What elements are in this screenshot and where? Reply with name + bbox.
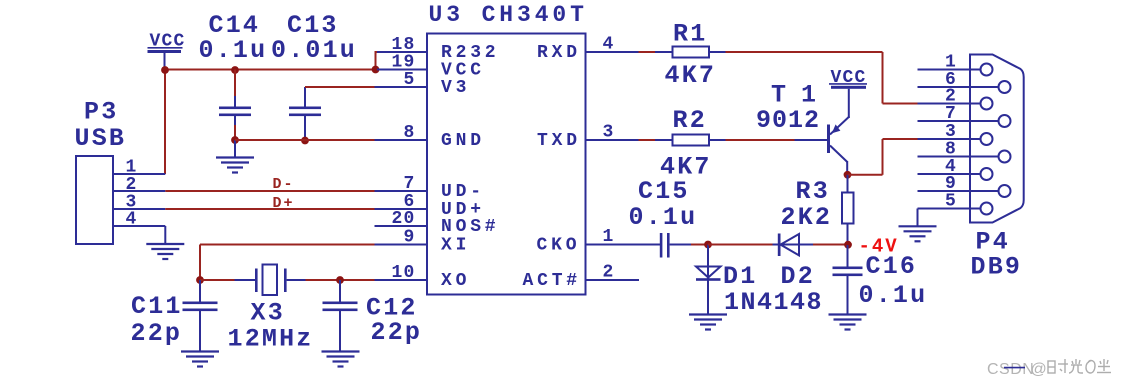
svg-text:V3: V3 xyxy=(441,78,470,98)
svg-text:P3: P3 xyxy=(84,98,118,127)
ground below C16 xyxy=(829,315,867,330)
svg-text:C16: C16 xyxy=(866,252,918,281)
pin 1 of P4 xyxy=(918,53,993,76)
node C14 top junction xyxy=(231,66,239,74)
power symbol VCC (left) xyxy=(148,32,186,70)
svg-text:20: 20 xyxy=(391,209,415,229)
svg-text:7: 7 xyxy=(403,174,415,194)
wire D2 to -4V node xyxy=(813,244,848,246)
node C15/D1/D2 junction xyxy=(704,241,712,249)
svg-text:7: 7 xyxy=(945,104,957,124)
svg-text:5: 5 xyxy=(403,70,415,90)
pin 1 (CKO) of U3 xyxy=(537,227,661,255)
pin 3 of P4 xyxy=(918,122,993,145)
node -4V junction xyxy=(844,241,852,249)
svg-text:0.01u: 0.01u xyxy=(271,36,357,65)
resistor R3 xyxy=(842,175,854,245)
svg-text:NOS#: NOS# xyxy=(441,217,499,237)
svg-text:4: 4 xyxy=(125,210,137,230)
pin 8 of P4 xyxy=(918,140,1011,163)
diode D2 xyxy=(773,234,814,257)
svg-text:C11: C11 xyxy=(131,292,183,321)
pin 9 of P4 xyxy=(918,174,1011,197)
diode D1 1N4148 xyxy=(696,245,721,315)
wire V3 net (pin 5 to C13) xyxy=(305,86,375,88)
wire R1 to DB9 pin 2 xyxy=(726,52,919,104)
svg-text:XI: XI xyxy=(441,235,470,255)
wire C14 junction to ground xyxy=(234,140,236,158)
capacitor C13 xyxy=(289,87,321,140)
svg-text:C15: C15 xyxy=(638,177,690,206)
pin 5 (V3) of U3 xyxy=(375,70,471,98)
node pin18/19 junction xyxy=(372,66,380,74)
pin 6 of P4 xyxy=(918,70,1011,93)
svg-text:R1: R1 xyxy=(673,20,707,49)
wire D- net xyxy=(165,190,375,192)
wire VCC to C14 xyxy=(234,70,236,98)
svg-text:GND: GND xyxy=(441,131,485,151)
wire XO net left stub xyxy=(200,279,235,281)
svg-text:8: 8 xyxy=(403,123,415,143)
watermark @时光の尘 glyph strokes xyxy=(1048,359,1111,373)
svg-text:XO: XO xyxy=(441,271,470,291)
svg-text:TXD: TXD xyxy=(537,131,581,151)
wire XO net crystal-right to pin 10 xyxy=(306,279,376,281)
pin 2 (ACT#) of U3 xyxy=(523,262,640,290)
svg-text:1N4148: 1N4148 xyxy=(724,288,823,317)
svg-text:RXD: RXD xyxy=(537,43,581,63)
wire XI net xyxy=(200,245,375,281)
wire VCC rail xyxy=(164,69,376,71)
ground below P3 pin 4 xyxy=(146,244,184,259)
svg-text:4K7: 4K7 xyxy=(665,61,717,90)
svg-text:D2: D2 xyxy=(781,262,815,291)
svg-text:3: 3 xyxy=(603,122,615,142)
svg-text:U3 CH340T: U3 CH340T xyxy=(429,2,588,28)
ground below C14 xyxy=(216,158,254,173)
pin 2 of P3 xyxy=(113,175,165,195)
svg-text:D1: D1 xyxy=(723,262,757,291)
pin 6 (UD+) of U3 xyxy=(375,192,485,220)
svg-text:0.1u: 0.1u xyxy=(859,281,928,310)
pin 1 of P3 xyxy=(113,158,165,178)
svg-text:R3: R3 xyxy=(796,177,830,206)
pin 4 (RXD) of U3 xyxy=(537,34,639,62)
svg-text:2: 2 xyxy=(603,262,615,282)
pin 20 (NOS#) of U3 xyxy=(375,209,500,237)
wire DB9 pin5 to ground xyxy=(917,209,919,226)
capacitor C11 xyxy=(183,280,218,352)
node VCC-left junction xyxy=(161,66,169,74)
svg-text:0.1u: 0.1u xyxy=(199,36,268,65)
wire R2 to T1 base xyxy=(726,139,796,141)
wire jog to pin 18 xyxy=(376,51,382,70)
pin 3 of P3 xyxy=(113,193,165,213)
wire C15 to D1/D2 node xyxy=(691,244,708,246)
pin 7 of P4 xyxy=(918,104,1011,127)
power symbol VCC (at T1) xyxy=(829,68,867,117)
resistor R2 xyxy=(655,135,727,146)
svg-text:@: @ xyxy=(1031,361,1048,378)
svg-text:22p: 22p xyxy=(131,319,183,348)
node C14 bottom junction xyxy=(231,136,239,144)
ground below C11 xyxy=(181,352,219,367)
ground below DB9 xyxy=(899,226,937,241)
wire GND net (C14/C13 to pin 8) xyxy=(235,139,375,141)
wire T1 collector to DB9 pin 3 xyxy=(848,139,919,175)
capacitor C14 xyxy=(219,96,251,126)
pin 10 (XO) of U3 xyxy=(375,263,471,291)
svg-text:2K2: 2K2 xyxy=(781,203,833,232)
svg-text:D-: D- xyxy=(273,176,295,193)
pin 9 (XI) of U3 xyxy=(375,227,471,255)
pin 18 (R232) of U3 xyxy=(377,35,499,63)
connector P4 DB9 body xyxy=(970,55,1024,223)
svg-text:UD-: UD- xyxy=(441,182,485,202)
svg-text:22p: 22p xyxy=(371,318,423,347)
capacitor C12 xyxy=(323,280,358,352)
svg-text:R2: R2 xyxy=(673,106,707,135)
pin 2 of P4 xyxy=(918,87,993,110)
pin 19 (VCC) of U3 xyxy=(377,52,485,80)
svg-text:CKO: CKO xyxy=(537,235,581,255)
resistor R1 xyxy=(655,47,727,58)
capacitor C16 xyxy=(833,245,863,315)
ground below C12 xyxy=(322,352,360,367)
svg-text:ACT#: ACT# xyxy=(523,271,581,291)
pin 4 of P4 xyxy=(918,157,993,180)
svg-text:0.1u: 0.1u xyxy=(629,203,698,232)
node C13 bottom junction xyxy=(301,137,309,145)
svg-text:10: 10 xyxy=(391,263,415,283)
wire pin3 to R2 xyxy=(639,139,657,141)
pin 5 of P4 xyxy=(918,192,993,215)
op-amp U3 CH340T body xyxy=(427,34,586,295)
pin 3 (TXD) of U3 xyxy=(537,122,639,150)
pin 4 of P3 xyxy=(113,210,165,244)
node T1 collector junction xyxy=(844,171,852,179)
pin 7 (UD-) of U3 xyxy=(375,174,485,202)
pin 8 (GND) of U3 xyxy=(375,123,485,151)
svg-text:4: 4 xyxy=(603,34,615,54)
svg-text:9: 9 xyxy=(403,227,415,247)
wire VCC drop to USB pin 1 xyxy=(164,70,166,175)
wire pin4 to R1 xyxy=(639,51,657,53)
wire D+ net xyxy=(165,208,375,210)
svg-text:1: 1 xyxy=(603,227,615,247)
svg-text:VCC: VCC xyxy=(831,68,867,88)
capacitor C15 xyxy=(660,233,692,258)
svg-text:5: 5 xyxy=(945,192,957,212)
node crystal left junction xyxy=(196,276,204,284)
connector P3 USB body xyxy=(76,156,113,244)
svg-text:12MHz: 12MHz xyxy=(228,325,314,354)
transistor T1 9012 xyxy=(795,117,850,176)
crystal X3 xyxy=(235,265,306,296)
vertical edge of P4 xyxy=(969,55,971,223)
ground below D1 xyxy=(689,315,727,330)
wire C14 to GND net xyxy=(234,125,236,140)
wire node to D2 xyxy=(708,244,773,246)
node crystal right junction xyxy=(336,276,344,284)
svg-text:USB: USB xyxy=(75,124,127,153)
svg-text:CSDN: CSDN xyxy=(987,361,1034,378)
svg-text:D+: D+ xyxy=(273,195,295,212)
svg-text:9012: 9012 xyxy=(756,106,820,135)
svg-text:DB9: DB9 xyxy=(971,253,1023,282)
svg-text:X3: X3 xyxy=(251,299,285,328)
